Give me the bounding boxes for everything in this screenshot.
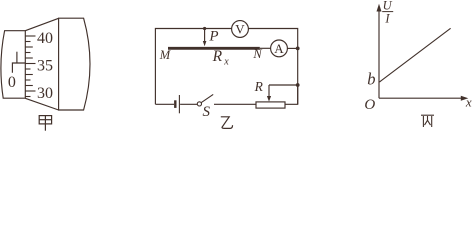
svg-text:P: P <box>208 29 218 45</box>
svg-text:S: S <box>202 104 210 120</box>
svg-text:40: 40 <box>37 30 53 47</box>
svg-text:R: R <box>254 79 264 94</box>
svg-text:35: 35 <box>37 57 53 74</box>
svg-text:M: M <box>159 48 171 62</box>
svg-text:A: A <box>274 41 284 56</box>
svg-text:0: 0 <box>8 74 16 91</box>
svg-text:I: I <box>384 12 390 26</box>
svg-text:R: R <box>212 48 223 65</box>
svg-text:30: 30 <box>37 85 53 102</box>
svg-text:N: N <box>252 47 262 61</box>
svg-text:x: x <box>465 94 472 109</box>
svg-text:O: O <box>364 97 375 113</box>
svg-text:b: b <box>367 69 375 88</box>
svg-text:V: V <box>235 22 245 37</box>
svg-text:x: x <box>223 56 229 67</box>
